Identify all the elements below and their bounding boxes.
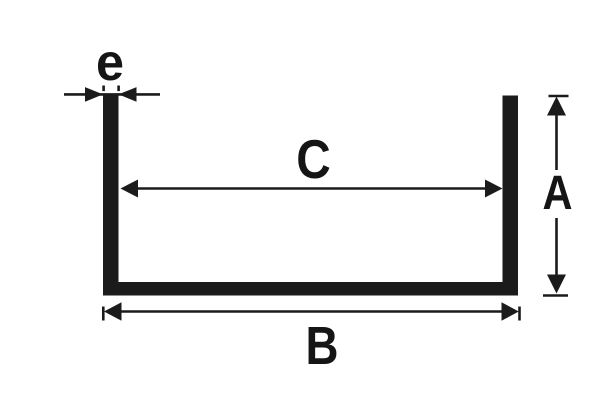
U-channel profile bbox=[103, 96, 518, 296]
bottom flange bbox=[103, 282, 518, 296]
svg-text:C: C bbox=[296, 128, 331, 190]
svg-text:e: e bbox=[96, 34, 124, 92]
svg-text:A: A bbox=[543, 167, 573, 220]
svg-text:B: B bbox=[306, 316, 339, 376]
dimension e arrows bbox=[64, 87, 160, 102]
dimension C line with arrows bbox=[121, 180, 503, 198]
dimension A line with arrows and ticks bbox=[543, 96, 569, 296]
dimension e extension ticks bbox=[102, 86, 120, 92]
dimension B line with arrows and ticks bbox=[103, 302, 519, 320]
left wall bbox=[103, 96, 119, 296]
right wall bbox=[503, 96, 519, 296]
